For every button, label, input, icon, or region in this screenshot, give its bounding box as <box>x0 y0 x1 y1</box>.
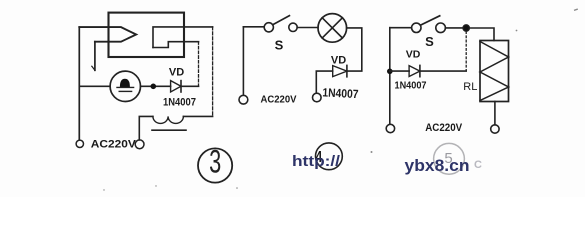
svg-text:ybx8.cn: ybx8.cn <box>405 157 470 175</box>
svg-text:1N4007: 1N4007 <box>395 80 427 92</box>
svg-text:S: S <box>275 38 284 53</box>
svg-text:AC220V: AC220V <box>91 139 137 151</box>
svg-text:http://: http:// <box>292 153 341 170</box>
svg-text:VD: VD <box>406 49 421 61</box>
svg-text:3: 3 <box>209 143 221 179</box>
svg-text:1N4007: 1N4007 <box>163 97 196 109</box>
svg-text:AC220V: AC220V <box>261 94 297 106</box>
svg-text:VD: VD <box>331 54 346 66</box>
svg-text:AC220V: AC220V <box>425 122 463 134</box>
svg-text:VD: VD <box>169 66 184 78</box>
svg-text:S: S <box>425 34 434 49</box>
svg-text:RL: RL <box>463 81 477 93</box>
svg-text:C: C <box>474 159 482 171</box>
svg-text:1N4007: 1N4007 <box>322 85 359 101</box>
